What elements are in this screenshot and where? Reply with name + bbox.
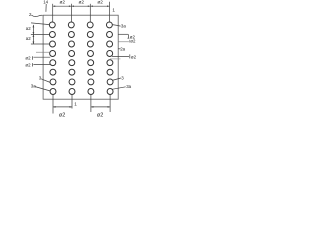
svg-text:ø2: ø2 — [79, 0, 85, 4]
electrode pads column 4 — [106, 22, 113, 95]
dimension arrowheads top — [53, 5, 110, 7]
svg-text:ø2: ø2 — [131, 55, 137, 60]
svg-text:ø2: ø2 — [130, 38, 136, 43]
left row extension line row2 — [31, 34, 50, 36]
substrate 1 (outline rectangle) — [43, 15, 118, 99]
right label 3a (bottom) with leader — [112, 87, 126, 90]
electrode pads column 1 — [49, 22, 56, 95]
svg-text:14: 14 — [43, 0, 48, 5]
bottom pitch dimension col3-col4 — [91, 106, 110, 108]
svg-text:ø2: ø2 — [25, 56, 31, 61]
bottom pitch dimension col1-col2 — [53, 106, 72, 108]
right tick dimension o2 middle (faint) — [118, 41, 129, 43]
svg-text:3: 3 — [121, 76, 124, 81]
electrode pads column 2 — [68, 22, 75, 95]
right tick dimension o2 lower — [112, 56, 129, 58]
bottom extension line col3 — [90, 94, 92, 112]
column centerline col4 (extension above) — [109, 2, 111, 22]
svg-text:3a: 3a — [121, 24, 126, 29]
left pitch dimension line (vertical) — [32, 25, 34, 44]
column centerline col1 (extension above) — [52, 4, 54, 22]
svg-text:2a: 2a — [120, 46, 125, 51]
column centerline col3 (extension above) — [89, 4, 91, 22]
svg-text:ø2: ø2 — [25, 62, 31, 67]
svg-text:2: 2 — [29, 12, 32, 17]
svg-text:3a: 3a — [31, 84, 36, 89]
right label 3 with leader — [112, 78, 121, 80]
svg-text:ø2: ø2 — [60, 0, 66, 4]
bottom extension line col2 — [71, 94, 73, 108]
left row extension line row3 — [31, 43, 50, 45]
electrode pads column 3 — [87, 22, 94, 95]
bottom extension line col4 — [109, 94, 111, 112]
top pitch dimension line — [53, 5, 110, 7]
svg-text:a2: a2 — [26, 26, 31, 31]
right label 2a with tick — [118, 48, 120, 50]
svg-text:ø2: ø2 — [97, 0, 103, 4]
svg-text:1: 1 — [112, 8, 115, 13]
svg-text:3: 3 — [39, 75, 42, 80]
svg-text:ø2: ø2 — [59, 112, 65, 118]
column centerline col2 (extension above) — [70, 4, 72, 22]
right tick dimension o2 upper — [118, 33, 128, 35]
svg-text:3a: 3a — [126, 84, 131, 89]
bottom extension line col1 — [52, 94, 54, 113]
right label 3a (top) with curved leader — [112, 25, 120, 27]
left row extension line row1 — [31, 23, 49, 25]
svg-text:ø2: ø2 — [97, 112, 103, 118]
svg-text:1: 1 — [74, 101, 77, 106]
svg-text:a2: a2 — [26, 36, 31, 41]
